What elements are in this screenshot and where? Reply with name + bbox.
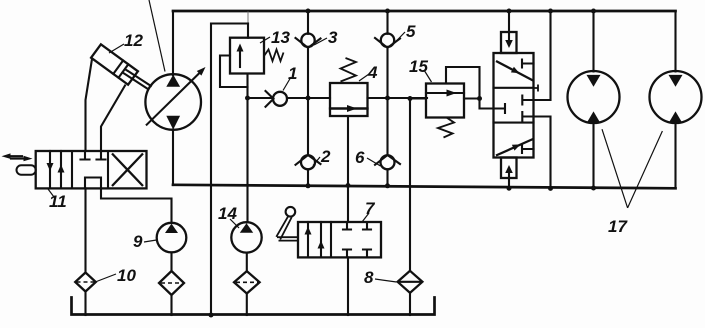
DCV bottom pilot box (501, 158, 517, 179)
DCV external stub right (534, 85, 539, 92)
wire: valve 13 drain loop to tank (211, 24, 248, 316)
valve 11 middle section bypass (85, 178, 101, 189)
svg-text:6: 6 (355, 148, 365, 167)
wire: motor riser and return (674, 11, 676, 188)
pump (variable displacement, main) (145, 74, 201, 130)
svg-text:9: 9 (133, 232, 143, 251)
wire: riser top bus to pump P top (172, 11, 174, 75)
valve 11 middle section blocked ports (81, 151, 90, 160)
wire: valve 15 pilot loop from top (446, 67, 480, 99)
check valve 5 (375, 34, 400, 48)
svg-text:5: 5 (406, 22, 416, 41)
svg-text:8: 8 (364, 268, 374, 287)
svg-text:13: 13 (271, 28, 290, 47)
wire: valve 11 tank port through filter 10 (84, 188, 86, 272)
wire: valve 13 bottom to junction / pump 14 (246, 74, 248, 223)
svg-text:3: 3 (328, 28, 338, 47)
check valve 3 (296, 34, 321, 48)
directional valve 11 body (36, 151, 147, 188)
node: mid line junction x=308 (306, 96, 311, 101)
check valve 1 (273, 92, 287, 106)
wire: DCV pilot riser (508, 11, 510, 32)
valve 11 right section crossed flows (112, 154, 143, 187)
DCV middle section blocked ports (494, 104, 506, 113)
check valve 2 (296, 155, 321, 169)
wire: valve 15 left port + drain through filter 8 (410, 99, 426, 271)
wire: check column x=387.5 upper (386, 11, 388, 34)
valve 13 spring (264, 50, 284, 62)
node: return bus junction x=308 (306, 183, 311, 188)
wire: check column x=308 lower (307, 169, 309, 186)
cylinder C12 piston (113, 61, 128, 78)
wire: filter 8 to tank (409, 293, 411, 315)
valve 4 spring (341, 58, 357, 82)
cylinder C12 rod (123, 69, 151, 89)
valve 11 left section flow arrows (49, 151, 51, 188)
valve 15 spring (438, 118, 454, 138)
pump 9 (157, 223, 187, 253)
wire: pump bottom to return bus (172, 130, 174, 186)
hydraulic motor 17 at x=593.5 (568, 71, 620, 123)
wire: filter 14 to tank (246, 294, 248, 316)
relief valve 13 body (230, 38, 264, 74)
wire: cylinder rod end to valve 11 port B (101, 86, 125, 152)
svg-text:14: 14 (218, 204, 237, 223)
tank line (72, 298, 435, 315)
node: tank junction (209, 313, 214, 318)
wire: thin riser to top bus (247, 12, 249, 24)
valve 7 lever with knob (286, 207, 296, 217)
svg-text:10: 10 (117, 266, 136, 285)
wire: pump 14 to filter (246, 253, 248, 272)
wire: top pressure bus (173, 10, 676, 13)
svg-text:17: 17 (608, 217, 628, 236)
wire: valve 15 output to directional valve (464, 99, 494, 109)
wire: check column x=387.5 middle (386, 48, 388, 156)
lever valve 7 body (298, 222, 381, 257)
pump variable-displacement diagonal arrow (147, 72, 201, 125)
svg-text:4: 4 (367, 63, 378, 82)
wire: valve 13 pilot loop (220, 56, 248, 88)
wire: valve 4 to valve 15 branch (368, 97, 428, 99)
wire: DCV bottom pilot to return bus (508, 178, 510, 188)
wire: check 1 to valve 4 (287, 97, 330, 99)
svg-text:12: 12 (124, 31, 143, 50)
wire: valve 11 pressure port from pump 9 (101, 188, 172, 223)
reducing valve 4 body (330, 83, 368, 109)
wire: valve 7 bottom to tank (347, 257, 349, 315)
wire: motor riser and return (592, 11, 594, 188)
wire: pump 9 suction from filter (170, 252, 172, 271)
DCV bottom section blocked stub (522, 145, 534, 153)
wire: mid line to check valve 1 (248, 97, 274, 99)
DCV bottom section diagonal arrow (496, 139, 533, 156)
wire: cylinder head end to valve 11 port A (86, 59, 93, 151)
reducing valve 15 body (426, 84, 464, 118)
filter under pump 14 (234, 271, 260, 293)
check valve 6 (375, 155, 400, 169)
leader line from cropped label to pump (149, 0, 165, 72)
node: return bus junction x=387.5 (385, 183, 390, 188)
wire: check column x=308 upper (307, 11, 309, 34)
wire: bottom return bus (173, 185, 676, 189)
pump 14 (231, 222, 261, 252)
directional control valve body (494, 53, 534, 158)
wire: valve 13 top port riser (247, 24, 249, 38)
node: top bus junction x=308 (306, 9, 311, 14)
DCV top pilot box (501, 32, 517, 53)
valve 11 actuation arrows (8, 155, 22, 157)
valve 7 right section blocked ports (343, 222, 351, 230)
filter under pump 9 (159, 271, 184, 295)
DCV top section diagonal arrow (496, 61, 533, 81)
wire: DCV right lower port to return bus (534, 117, 551, 189)
wire: DCV right upper port to top bus (534, 11, 551, 100)
node: mid line junction x=387.5 (385, 96, 390, 101)
hydraulic motor 17 at x=675.5 (650, 71, 702, 123)
node: junction valve13/pump14/line (245, 96, 250, 101)
filter 10 (75, 273, 96, 292)
filter 8 (398, 271, 423, 293)
wire: check column x=308 middle (307, 48, 309, 156)
svg-text:2: 2 (320, 147, 331, 166)
wire: valve 4 drain down to valve 7 (347, 116, 349, 222)
cylinder C12 body (91, 44, 138, 84)
wire: check column x=387.5 lower (386, 169, 388, 186)
DCV top section blocked stub (522, 60, 534, 68)
valve 7 left section arrows (307, 222, 309, 257)
valve 11 manual push handle (17, 165, 36, 174)
node: top bus junction x=387.5 (385, 9, 390, 14)
